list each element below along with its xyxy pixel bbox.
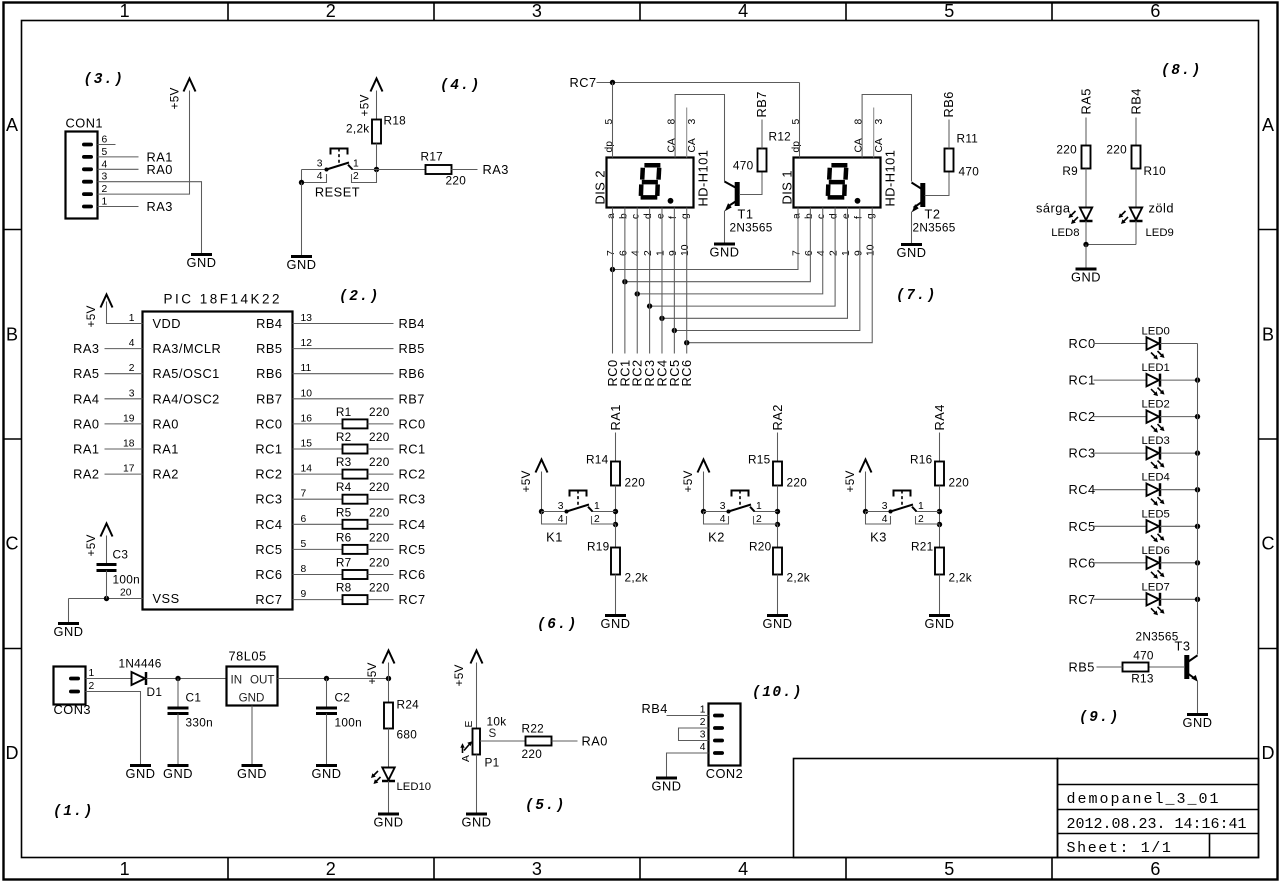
pin 1 segment e of DIS2: [655, 213, 666, 256]
svg-text:demopanel_3_01: demopanel_3_01: [1067, 791, 1221, 808]
svg-text:R24: R24: [397, 698, 420, 712]
svg-text:220: 220: [369, 430, 390, 444]
svg-text:2,2k: 2,2k: [625, 571, 649, 585]
wire C2 to ground: [326, 714, 328, 766]
LED LED2: [1147, 410, 1165, 433]
switch K2: [704, 491, 778, 545]
svg-text:RC1: RC1: [1069, 373, 1096, 388]
+5V at K1: [519, 460, 548, 493]
wire R21 to ground: [939, 575, 941, 616]
LED LED6: [1147, 556, 1165, 579]
wire RA5 to R9: [1085, 118, 1087, 146]
wire CON3 pin 1 to D1: [86, 678, 132, 680]
pin 5 dp of DIS2: [604, 119, 615, 153]
+5V at K3: [843, 460, 872, 493]
svg-text:R13: R13: [1131, 672, 1154, 686]
svg-text:220: 220: [1056, 143, 1077, 157]
connector CON2: [700, 704, 744, 782]
svg-text:a: a: [792, 213, 803, 219]
junction LED4 cathode bus: [1195, 487, 1200, 492]
resistor R4: [343, 495, 368, 504]
svg-text:RA0: RA0: [73, 416, 99, 431]
wire U1 RB4 to net: [293, 323, 394, 325]
+5V at U1 VDD: [84, 295, 113, 328]
wire RESET to ground: [301, 183, 303, 257]
junction segment a: [610, 267, 615, 272]
wire DIS2 segment c to RC2: [636, 208, 638, 354]
resistor R10: [1132, 146, 1141, 169]
svg-text:2,2k: 2,2k: [346, 122, 370, 136]
svg-text:RA0: RA0: [153, 416, 179, 431]
svg-text:RC5: RC5: [399, 542, 426, 557]
wire R8 to RC7: [368, 599, 394, 601]
svg-text:RA3: RA3: [147, 199, 173, 214]
switch K1: [542, 491, 616, 545]
svg-text:RC2: RC2: [1069, 409, 1096, 424]
svg-text:2: 2: [756, 514, 762, 525]
resistor R13: [1123, 663, 1149, 672]
svg-text:RC4: RC4: [255, 517, 282, 532]
svg-text:R22: R22: [522, 722, 545, 736]
svg-text:+5V: +5V: [84, 305, 98, 327]
pin 2 segment d of DIS2: [643, 213, 654, 256]
7-segment display DIS2 HD-H101: [593, 150, 711, 208]
ground at CON3: [126, 766, 156, 782]
svg-text:6: 6: [102, 135, 108, 146]
pin 6 RC4 of U1: [255, 514, 306, 532]
svg-text:6: 6: [804, 250, 815, 256]
wire DIS2 dp: [612, 83, 614, 158]
svg-text:GND: GND: [652, 779, 682, 794]
svg-text:10: 10: [866, 244, 877, 256]
svg-text:6: 6: [1150, 1, 1160, 21]
svg-text:220: 220: [446, 174, 467, 188]
wire CON1 pin 4 to RA0: [98, 168, 139, 170]
wire R20 to ground: [777, 575, 779, 616]
svg-text:LED5: LED5: [1142, 508, 1170, 520]
wire RC1 to LED1: [1094, 379, 1147, 381]
wire R19 to ground: [615, 575, 617, 616]
svg-text:RC7: RC7: [570, 75, 597, 90]
junction LED8/LED9 ground node: [1083, 242, 1088, 247]
wire DIS2 segment e to RC4: [661, 208, 663, 354]
svg-text:9: 9: [668, 250, 679, 256]
wire CON1 pin 2 to +5V: [98, 91, 190, 195]
resistor R21: [935, 548, 944, 575]
svg-text:PIC 18F14K22: PIC 18F14K22: [164, 292, 283, 307]
wire RC5 to LED5: [1094, 525, 1147, 527]
svg-text:e: e: [655, 213, 666, 219]
wire +5V to R18: [376, 91, 378, 120]
svg-text:220: 220: [522, 747, 543, 761]
svg-text:R14: R14: [586, 453, 609, 467]
svg-text:1N4446: 1N4446: [119, 657, 162, 671]
svg-text:R20: R20: [749, 540, 772, 554]
junction LED5 cathode bus: [1195, 524, 1200, 529]
svg-text:CON3: CON3: [54, 702, 92, 717]
svg-text:RC0: RC0: [255, 416, 282, 431]
wire U1 RC2 to R3: [293, 473, 343, 475]
svg-text:3: 3: [532, 859, 542, 879]
svg-text:RA2: RA2: [770, 404, 785, 430]
wire DIS1 CA pin 8 to T2 collector: [862, 95, 911, 182]
wire R4 to RC3: [368, 498, 394, 500]
+5V at K2: [681, 460, 710, 493]
svg-text:RB5: RB5: [399, 341, 425, 356]
pin 14 RC2 of U1: [255, 464, 312, 482]
svg-text:RC5: RC5: [255, 542, 282, 557]
svg-text:LED4: LED4: [1142, 472, 1170, 484]
connector CON3: [54, 667, 95, 718]
wire RA4 to R16: [939, 433, 941, 462]
svg-text:GND: GND: [374, 815, 404, 830]
wire RC4 to LED4: [1094, 489, 1147, 491]
pin 1 segment e of DIS1: [841, 213, 852, 256]
wire U1 RC1 to R2: [293, 448, 343, 450]
wire LED6 to bus: [1160, 562, 1198, 564]
svg-text:GND: GND: [163, 766, 193, 781]
svg-text:CON2: CON2: [706, 766, 744, 781]
+5V at R18: [358, 79, 383, 117]
svg-text:5: 5: [944, 859, 954, 879]
svg-text:GND: GND: [462, 815, 492, 830]
LED LED10: [371, 768, 431, 794]
svg-text:RA3/MCLR: RA3/MCLR: [153, 341, 222, 356]
wire LED9 cathode down: [1135, 221, 1137, 245]
svg-text:RB4: RB4: [642, 701, 668, 716]
svg-text:10: 10: [680, 244, 691, 256]
diode D1 1N4446: [119, 657, 163, 700]
wire C3 to VSS net: [106, 571, 108, 599]
junction K2 pin 1: [775, 509, 780, 514]
svg-text:f: f: [668, 216, 679, 219]
wire R9 to LED8: [1085, 169, 1087, 208]
svg-text:RC7: RC7: [399, 592, 426, 607]
junction K3 pin 2: [937, 522, 942, 527]
ground at U1 VSS: [54, 624, 84, 640]
svg-text:RA4: RA4: [932, 404, 947, 430]
svg-text:220: 220: [787, 476, 808, 490]
svg-text:+5V: +5V: [681, 470, 695, 492]
svg-text:RC1: RC1: [255, 442, 282, 457]
LED LED0: [1147, 337, 1165, 360]
svg-text:RC0: RC0: [1069, 336, 1096, 351]
svg-text:RA2: RA2: [153, 467, 179, 482]
svg-text:E: E: [464, 721, 475, 728]
svg-text:A: A: [6, 115, 18, 135]
svg-text:(1.): (1.): [53, 804, 94, 820]
wire +5V node to R24: [388, 663, 390, 703]
transistor T1 2N3565: [725, 182, 773, 235]
svg-text:4: 4: [700, 742, 706, 753]
wire P1 to ground: [476, 755, 478, 815]
+5V at P1: [452, 651, 483, 687]
svg-text:4: 4: [631, 250, 642, 256]
svg-text:2: 2: [918, 514, 924, 525]
svg-text:GND: GND: [601, 616, 631, 631]
ground at T2: [897, 245, 927, 261]
resistor R18: [372, 120, 381, 144]
wire R24 to LED10: [388, 729, 390, 768]
svg-text:GND: GND: [897, 245, 927, 260]
svg-text:GND: GND: [287, 257, 317, 272]
wire CON1 pin 1 to RA3: [98, 206, 139, 208]
svg-text:+5V: +5V: [168, 87, 182, 109]
wire +5V to K1: [541, 472, 543, 512]
svg-text:3: 3: [532, 1, 542, 21]
wire CON1 pin 6 stub: [98, 144, 116, 146]
wire K3 to R21: [939, 525, 941, 548]
wire LED4 to bus: [1160, 489, 1198, 491]
junction LED1 cathode bus: [1195, 377, 1200, 382]
svg-text:(5.): (5.): [525, 798, 566, 814]
pin 12 RB5 of U1: [256, 338, 312, 356]
svg-text:RA0: RA0: [147, 162, 173, 177]
svg-text:2: 2: [326, 859, 336, 879]
svg-text:RA1: RA1: [73, 442, 99, 457]
resistor R2: [343, 445, 368, 454]
junction K2 pin 2: [775, 522, 780, 527]
svg-text:zöld: zöld: [1149, 201, 1174, 216]
svg-text:RB7: RB7: [754, 91, 769, 117]
wire U1 RA1 to RA1: [105, 448, 143, 450]
svg-text:3: 3: [129, 388, 135, 399]
svg-text:4: 4: [558, 514, 564, 525]
wire 78L05 GND pin to ground: [251, 706, 253, 766]
svg-text:RESET: RESET: [315, 185, 360, 200]
svg-text:DIS 2: DIS 2: [593, 170, 608, 205]
svg-text:RA2: RA2: [73, 467, 99, 482]
7-segment display DIS1 HD-H101: [780, 150, 898, 208]
svg-text:1: 1: [655, 250, 666, 256]
svg-text:RC4: RC4: [1069, 482, 1096, 497]
wire K2 to R20: [777, 525, 779, 548]
LED LED9: [1119, 208, 1143, 225]
junction segment b: [622, 279, 627, 284]
svg-text:RA3: RA3: [483, 162, 509, 177]
svg-text:4: 4: [129, 338, 135, 349]
svg-text:RA5/OSC1: RA5/OSC1: [153, 366, 220, 381]
svg-text:2: 2: [700, 717, 706, 728]
svg-text:R6: R6: [336, 530, 352, 544]
wire R7 to RC6: [368, 574, 394, 576]
pin 6 segment b of DIS2: [618, 213, 629, 256]
svg-text:g: g: [866, 213, 877, 219]
svg-text:1: 1: [841, 250, 852, 256]
svg-text:RC3: RC3: [1069, 446, 1096, 461]
svg-text:dp: dp: [791, 141, 802, 153]
svg-text:GND: GND: [54, 624, 84, 639]
svg-text:D1: D1: [147, 685, 163, 699]
svg-text:100n: 100n: [335, 716, 362, 730]
wire RB4 to R10: [1135, 118, 1137, 146]
pin 1 VDD of U1: [129, 313, 181, 331]
pin 5 RC5 of U1: [255, 539, 306, 557]
svg-text:VDD: VDD: [153, 316, 182, 331]
ground at 78L05: [237, 766, 267, 782]
ground at K2: [763, 616, 793, 632]
wire segment d bus DIS1 to DIS2: [650, 208, 836, 307]
svg-text:(3.): (3.): [84, 72, 125, 88]
svg-text:RC6: RC6: [679, 359, 694, 386]
wire T1 emitter to ground: [724, 211, 726, 245]
svg-text:RB7: RB7: [256, 391, 282, 406]
svg-text:RA4/OSC2: RA4/OSC2: [153, 391, 220, 406]
svg-text:8: 8: [301, 564, 307, 575]
svg-text:CA: CA: [687, 138, 698, 152]
pin 16 RC0 of U1: [255, 413, 312, 431]
wire RB4 to CON2 pin 1: [667, 715, 709, 717]
svg-text:a: a: [606, 213, 617, 219]
capacitor C1: [168, 691, 213, 730]
svg-text:R16: R16: [910, 453, 933, 467]
wire LED8 cathode down: [1085, 221, 1087, 245]
wire RC2 to LED2: [1094, 416, 1147, 418]
svg-text:3: 3: [882, 501, 888, 512]
svg-text:1: 1: [89, 668, 95, 679]
svg-text:Sheet: 1/1: Sheet: 1/1: [1067, 840, 1173, 857]
svg-text:R10: R10: [1144, 164, 1167, 178]
pin 10 segment g of DIS1: [866, 213, 877, 256]
svg-text:2012.08.23. 14:16:41: 2012.08.23. 14:16:41: [1067, 816, 1247, 833]
wire segment b bus DIS1 to DIS2: [625, 208, 811, 282]
svg-text:R8: R8: [336, 581, 352, 595]
junction LED3 cathode bus: [1195, 450, 1200, 455]
svg-text:LED7: LED7: [1142, 581, 1170, 593]
svg-text:dp: dp: [604, 141, 615, 153]
wire +5V to K2: [703, 472, 705, 512]
svg-text:RB4: RB4: [1129, 88, 1144, 114]
resistor R22: [526, 737, 552, 746]
svg-text:K3: K3: [870, 530, 887, 545]
svg-text:RB6: RB6: [399, 366, 425, 381]
svg-text:7: 7: [606, 250, 617, 256]
svg-text:+5V: +5V: [365, 662, 379, 684]
svg-text:A: A: [461, 755, 472, 762]
svg-text:3: 3: [874, 119, 885, 125]
svg-text:220: 220: [949, 476, 970, 490]
wire segment e bus DIS1 to DIS2: [662, 208, 848, 319]
wire LED cathode bus to T3 collector: [1197, 344, 1199, 655]
svg-text:R18: R18: [384, 114, 407, 128]
wire 78L05 OUT to +5V node: [278, 678, 389, 680]
svg-text:CA: CA: [874, 138, 885, 152]
wire R15 to K2: [777, 486, 779, 525]
svg-text:LED8: LED8: [1051, 227, 1079, 239]
svg-text:CON1: CON1: [66, 116, 104, 131]
svg-text:CA: CA: [854, 138, 865, 152]
svg-text:+5V: +5V: [358, 94, 372, 116]
wire T2 emitter to ground: [911, 212, 913, 245]
svg-text:C1: C1: [186, 691, 202, 705]
LED LED3: [1147, 447, 1165, 470]
svg-text:7: 7: [301, 489, 307, 500]
svg-text:RA5: RA5: [1079, 88, 1094, 114]
svg-text:R1: R1: [336, 405, 352, 419]
wire junction to C2: [326, 679, 328, 708]
pin 3 CA stub of DIS1: [874, 108, 886, 158]
svg-text:1: 1: [918, 501, 924, 512]
svg-text:RC6: RC6: [255, 567, 282, 582]
junction LED7 cathode bus: [1195, 597, 1200, 602]
svg-text:680: 680: [397, 728, 418, 742]
svg-text:5: 5: [604, 119, 615, 125]
svg-text:B: B: [6, 324, 18, 344]
svg-text:(10.): (10.): [752, 685, 803, 701]
LED LED1: [1147, 374, 1165, 397]
svg-text:220: 220: [369, 581, 390, 595]
svg-text:C2: C2: [335, 691, 351, 705]
svg-text:2,2k: 2,2k: [949, 571, 973, 585]
switch RESET: [302, 149, 377, 200]
svg-text:LED3: LED3: [1142, 435, 1170, 447]
wire DIS2 segment b to RC1: [624, 208, 626, 354]
resistor R8: [343, 595, 368, 604]
svg-text:+5V: +5V: [519, 470, 533, 492]
pin 6 segment b of DIS1: [804, 213, 815, 256]
svg-text:100n: 100n: [113, 573, 140, 587]
svg-text:RC6: RC6: [1069, 555, 1096, 570]
svg-text:13: 13: [301, 313, 313, 324]
junction K1 pin 1: [613, 509, 618, 514]
svg-text:3: 3: [720, 501, 726, 512]
wire R13 to T3 base: [1149, 666, 1185, 668]
ground at C2: [312, 766, 342, 782]
svg-text:220: 220: [369, 405, 390, 419]
pin 20 VSS of U1: [120, 588, 180, 607]
wire D1 to 78L05 IN: [146, 678, 227, 680]
wire T3 emitter to ground: [1197, 681, 1199, 715]
wire R11 to RB6: [948, 120, 950, 149]
wire U1 RC0 to R1: [293, 423, 343, 425]
junction +5V rail: [386, 676, 391, 681]
svg-text:(7.): (7.): [896, 288, 937, 304]
ground at P1: [462, 814, 492, 830]
svg-text:220: 220: [369, 480, 390, 494]
pin 10 segment g of DIS2: [680, 213, 691, 256]
resistor R15: [773, 462, 782, 486]
pin 5 dp of DIS1: [791, 119, 802, 153]
wire U1 VSS to ground: [69, 598, 143, 600]
LED LED4: [1147, 483, 1165, 506]
svg-text:16: 16: [301, 413, 313, 424]
svg-text:6: 6: [1150, 859, 1160, 879]
wire U1 RB7 to net: [293, 398, 394, 400]
svg-text:LED9: LED9: [1146, 227, 1174, 239]
junction segment g: [684, 340, 689, 345]
svg-text:e: e: [841, 213, 852, 219]
wire CON2 pin 2 to pin 3 loop: [679, 728, 709, 741]
svg-text:C: C: [1262, 534, 1275, 554]
wire DIS2 segment f to RC5: [673, 208, 675, 354]
svg-text:c: c: [631, 214, 642, 219]
svg-text:17: 17: [123, 464, 135, 475]
title block: [794, 759, 1259, 858]
wire R3 to RC2: [368, 473, 394, 475]
wire CON1 pin 5 to RA1: [98, 156, 139, 158]
ground at CON1: [187, 255, 217, 271]
svg-text:2: 2: [326, 1, 336, 21]
svg-text:P1: P1: [485, 756, 500, 770]
svg-text:OUT: OUT: [250, 674, 274, 687]
svg-text:f: f: [853, 216, 864, 219]
svg-text:4: 4: [720, 514, 726, 525]
capacitor C3: [97, 548, 140, 587]
svg-text:RB5: RB5: [256, 341, 282, 356]
svg-text:6: 6: [618, 250, 629, 256]
svg-text:LED0: LED0: [1142, 326, 1170, 338]
svg-text:3: 3: [558, 501, 564, 512]
